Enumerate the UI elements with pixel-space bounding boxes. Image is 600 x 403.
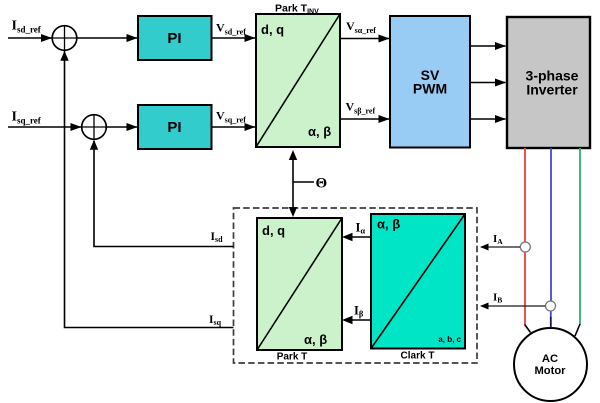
PI controller PI1 bbox=[138, 16, 212, 60]
svg-text:α, β: α, β bbox=[304, 332, 327, 347]
PI controller PI2 bbox=[138, 105, 212, 149]
wire phase A (red) bbox=[524, 148, 526, 325]
current sensor tap I_A bbox=[480, 242, 530, 252]
measurement subsystem dashed box bbox=[234, 208, 478, 363]
svg-text:PI: PI bbox=[167, 119, 181, 136]
wire I_sq feedback bbox=[60, 51, 233, 328]
svg-text:PWM: PWM bbox=[413, 81, 447, 97]
svg-text:d, q: d, q bbox=[261, 22, 284, 37]
svg-text:Clark T: Clark T bbox=[401, 351, 435, 362]
wire SVPWM to inverter 3 bbox=[470, 118, 506, 120]
wire V_sa_ref to SV PWM bbox=[340, 19, 389, 39]
transform block Park T_INV (inverse Park) bbox=[256, 3, 340, 148]
wire S1 to PI1 bbox=[77, 37, 137, 39]
wire SVPWM to inverter 1 bbox=[470, 45, 506, 47]
wire theta (rotor angle) bbox=[289, 150, 314, 217]
wire I_alpha Clark to Park bbox=[342, 221, 371, 242]
svg-text:Inverter: Inverter bbox=[526, 82, 578, 98]
svg-text:d, q: d, q bbox=[262, 223, 285, 238]
svg-text:PI: PI bbox=[167, 30, 181, 47]
transform block Park T (feedback) bbox=[257, 218, 342, 363]
wire phase B (blue) bbox=[550, 148, 552, 318]
svg-text:Park T: Park T bbox=[277, 352, 308, 363]
wire S2 to PI2 bbox=[106, 126, 137, 128]
wire I_sd feedback bbox=[90, 140, 234, 247]
wire phase B motor stub bbox=[550, 317, 552, 329]
node theta label bbox=[316, 176, 328, 192]
node I_sq_ref label bbox=[12, 110, 42, 126]
node I_B label bbox=[493, 292, 502, 305]
svg-text:α, β: α, β bbox=[308, 124, 331, 139]
wire phase C motor stub bbox=[575, 324, 580, 336]
transform block Clark T bbox=[371, 214, 465, 362]
svg-text:Θ: Θ bbox=[316, 176, 328, 192]
block 3-phase Inverter bbox=[507, 17, 590, 148]
wire phase C (green) bbox=[579, 148, 581, 325]
wire I_sd_ref input bbox=[8, 37, 52, 39]
wire PI2 to Park, node V_sq_ref bbox=[212, 109, 256, 128]
svg-text:a, b, c: a, b, c bbox=[438, 335, 461, 344]
current sensor tap I_B bbox=[480, 301, 556, 311]
wire V_sb_ref to SV PWM bbox=[340, 100, 389, 120]
block SV PWM bbox=[390, 16, 470, 148]
node I_A label bbox=[493, 233, 503, 246]
wire SVPWM to inverter 2 bbox=[470, 82, 506, 84]
summing junction S1 bbox=[52, 26, 77, 51]
svg-text:Motor: Motor bbox=[534, 365, 566, 377]
wire phase A motor stub bbox=[525, 325, 531, 333]
svg-text:α, β: α, β bbox=[377, 217, 400, 232]
wire PI1 to Park, node V_sd_ref bbox=[212, 21, 256, 39]
svg-text:AC: AC bbox=[542, 353, 558, 365]
summing junction S2 bbox=[82, 115, 107, 140]
node I_sd_ref label bbox=[12, 19, 42, 35]
AC motor M bbox=[514, 328, 587, 401]
wire I_sq_ref input bbox=[8, 126, 81, 128]
wire I_beta Clark to Park bbox=[342, 304, 371, 325]
